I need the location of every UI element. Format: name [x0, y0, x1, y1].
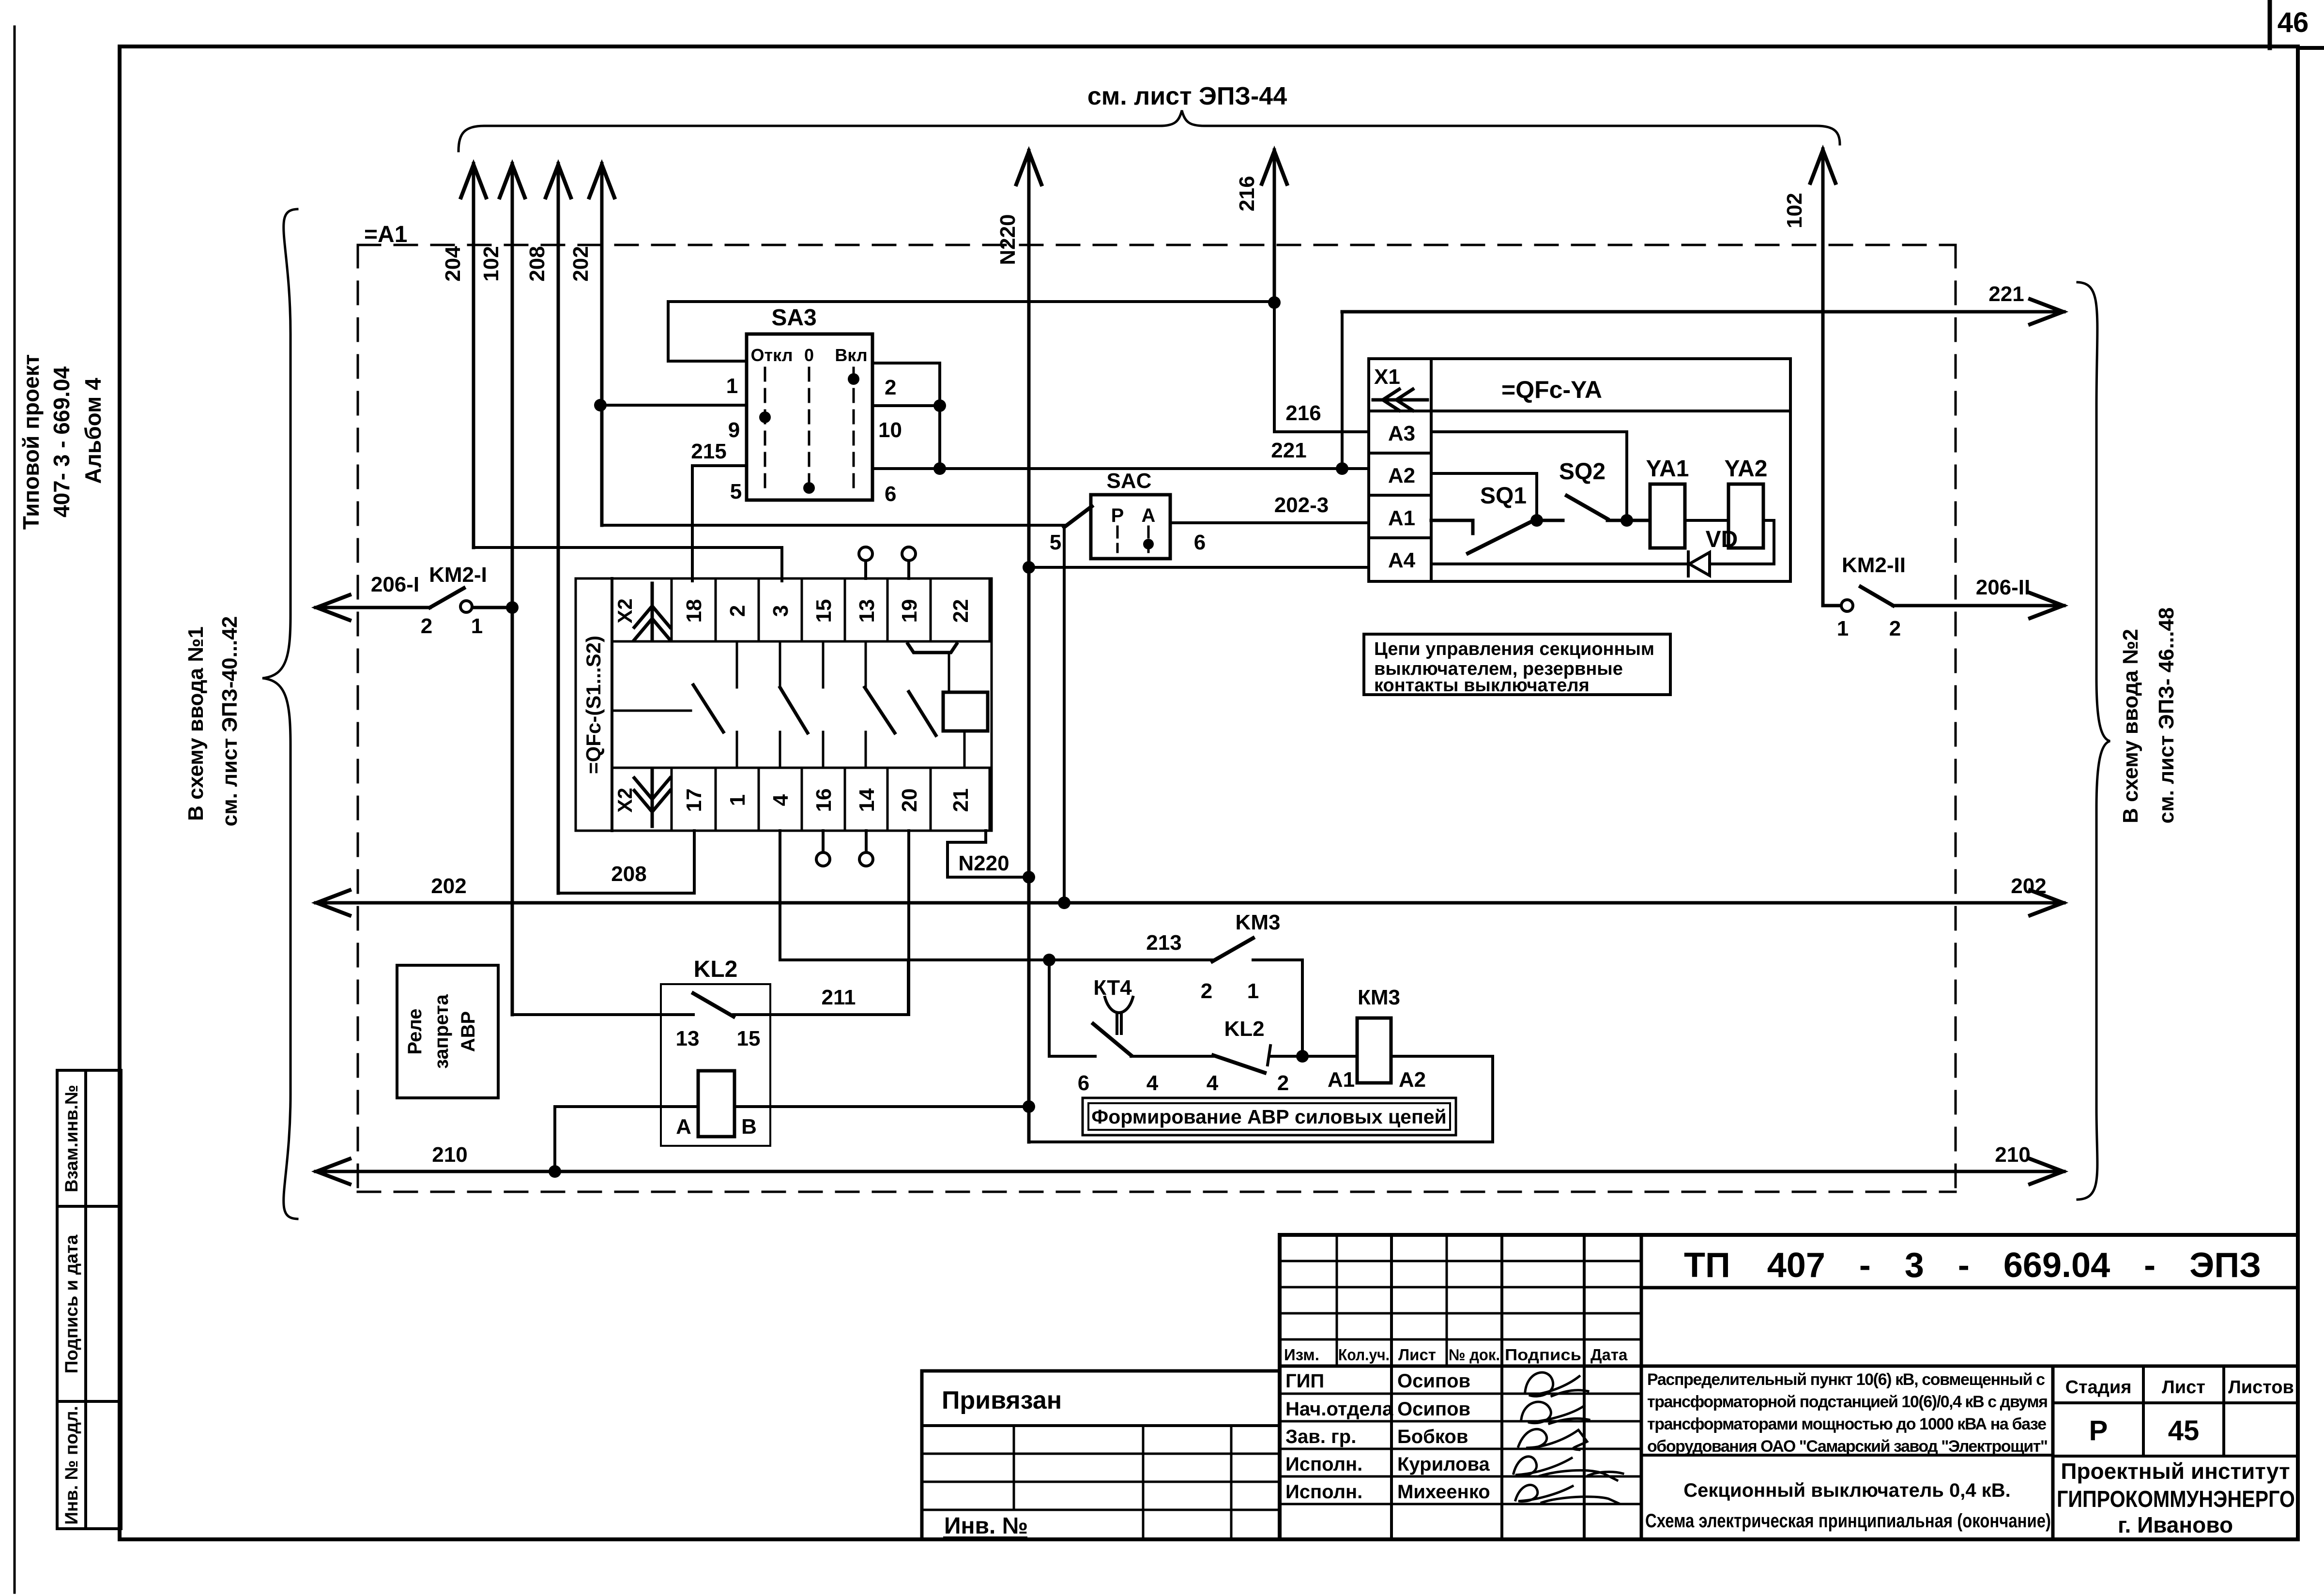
svg-text:2: 2 — [1201, 979, 1212, 1003]
wire SAC5 drop to 202 — [1063, 526, 1066, 903]
wire SA3 pin6 to X1-A2 (221 run) — [872, 467, 1369, 470]
QFc terminal 13 circle — [859, 547, 872, 561]
svg-text:202: 202 — [569, 246, 593, 281]
svg-text:4: 4 — [1147, 1071, 1159, 1095]
svg-text:21: 21 — [949, 789, 973, 812]
svg-text:Михеенко: Михеенко — [1397, 1481, 1490, 1503]
svg-text:22: 22 — [949, 599, 973, 623]
wire SA3 pin1 to 216 node — [668, 302, 1274, 361]
svg-text:Цепи управления секционным: Цепи управления секционным — [1374, 639, 1654, 659]
wire 202 down-corner to SAC — [602, 524, 1065, 527]
svg-text:0: 0 — [804, 345, 814, 365]
switch SAC box — [1091, 495, 1170, 559]
svg-text:Нач.отдела: Нач.отдела — [1285, 1398, 1393, 1420]
svg-text:N220: N220 — [958, 851, 1009, 875]
svg-text:102: 102 — [479, 246, 503, 281]
node KL2-B on N220 — [1023, 1100, 1035, 1113]
coil KM3 — [1357, 1018, 1391, 1083]
project description cell — [1647, 1370, 2048, 1456]
svg-text:трансформаторной подстанцией 1: трансформаторной подстанцией 10(6)/0,4 к… — [1647, 1393, 2048, 1411]
svg-text:216: 216 — [1285, 401, 1321, 425]
left big brace — [262, 209, 297, 1219]
role names — [1285, 1370, 1490, 1503]
svg-text:SAC: SAC — [1107, 469, 1152, 493]
svg-text:6: 6 — [1194, 531, 1206, 554]
svg-text:АВР: АВР — [458, 1011, 479, 1052]
wire to KM3 coil — [1270, 1055, 1357, 1058]
svg-text:Лист: Лист — [2162, 1377, 2205, 1398]
svg-text:Дата: Дата — [1590, 1346, 1628, 1364]
svg-text:2: 2 — [885, 376, 896, 399]
node SA3 pin9 tap — [594, 399, 607, 411]
top brace см. лист ЭПЗ-44 — [459, 110, 1840, 151]
QFc trip coil — [943, 692, 988, 731]
X1 interior A1 wire to SQ1 — [1431, 519, 1537, 553]
wire QFc-20 drop — [907, 831, 910, 1015]
svg-text:Проектный институт: Проектный институт — [2061, 1459, 2290, 1484]
node SA3 right jog 10 — [933, 399, 946, 412]
contact KT4 timer — [1093, 997, 1133, 1055]
svg-text:2: 2 — [1277, 1071, 1289, 1095]
svg-text:ГИПРОКОММУНЭНЕРГО: ГИПРОКОММУНЭНЕРГО — [2057, 1487, 2295, 1512]
SA3 dashed position lines — [765, 368, 854, 491]
node 216 junction — [1268, 296, 1281, 309]
coil YA1 — [1650, 484, 1685, 548]
wire 208 vertical with up arrow — [546, 164, 571, 893]
wire X1-A4 run to N220 — [1029, 566, 1369, 569]
svg-text:13: 13 — [855, 599, 879, 623]
svg-text:Откл: Откл — [751, 345, 793, 365]
contact KM2-II — [1823, 587, 2064, 618]
svg-text:контакты выключателя: контакты выключателя — [1374, 675, 1590, 696]
svg-text:5: 5 — [1050, 531, 1061, 554]
node SA3 right jog 6 — [933, 462, 946, 475]
terminal block X1 =QFc-YA box — [1369, 359, 1790, 581]
svg-text:Секционный выключатель 0,4 кВ.: Секционный выключатель 0,4 кВ. — [1683, 1480, 2010, 1501]
svg-text:Лист: Лист — [1398, 1346, 1436, 1364]
wire 204 corner to QFc terminal 3 — [474, 547, 782, 581]
page thin left border — [14, 27, 16, 1593]
svg-text:Подпись и дата: Подпись и дата — [61, 1234, 81, 1373]
svg-text:Р: Р — [2089, 1415, 2108, 1446]
node N220 jog — [1023, 871, 1035, 883]
SAC dashed lines — [1117, 527, 1148, 552]
svg-text:15: 15 — [737, 1027, 761, 1050]
wire YA1 to YA2 — [1685, 519, 1728, 522]
left side stamp column — [57, 1070, 121, 1529]
svg-text:407- 3 - 669.04: 407- 3 - 669.04 — [49, 366, 74, 517]
coil YA2 — [1728, 484, 1763, 548]
svg-text:45: 45 — [2168, 1415, 2200, 1446]
node A4 on N220 — [1023, 561, 1035, 574]
svg-text:A3: A3 — [1388, 422, 1415, 445]
svg-text:Альбом 4: Альбом 4 — [80, 378, 106, 484]
node 213 branch — [1043, 954, 1055, 966]
X1 interior A3 wire — [1431, 432, 1627, 520]
svg-text:Привязан: Привязан — [942, 1386, 1062, 1414]
node KM3-1 drop — [1296, 1050, 1309, 1063]
svg-text:P: P — [1111, 505, 1124, 526]
svg-text:Зав. гр.: Зав. гр. — [1285, 1426, 1356, 1447]
svg-text:206-II: 206-II — [1976, 576, 2031, 599]
wire QFc-4 drop — [779, 831, 781, 960]
svg-text:В схему ввода №2: В схему ввода №2 — [2119, 629, 2142, 823]
QFc label column divider — [611, 578, 613, 831]
wire X1-A4 return with diode — [1431, 562, 1688, 565]
title block outer — [1280, 1235, 2298, 1539]
svg-text:SA3: SA3 — [771, 305, 816, 331]
svg-text:1: 1 — [726, 794, 749, 806]
svg-text:2: 2 — [421, 614, 432, 638]
svg-text:202: 202 — [2011, 874, 2046, 898]
svg-text:Формирование АВР силовых цепей: Формирование АВР силовых цепей — [1091, 1106, 1447, 1128]
right big brace — [2078, 282, 2110, 1200]
svg-text:оборудования ОАО "Самарский за: оборудования ОАО "Самарский завод "Элект… — [1647, 1437, 2048, 1456]
note box Цепи управления — [1364, 634, 1670, 695]
QFc jumper hat 19-22 — [908, 644, 957, 653]
svg-text:Реле: Реле — [404, 1008, 426, 1054]
wire 221 horizontal to right arrow — [1342, 299, 2064, 324]
wire 204 vertical with up arrow — [461, 164, 486, 547]
svg-text:КТ4: КТ4 — [1093, 976, 1132, 1000]
svg-text:VD: VD — [1706, 527, 1738, 552]
svg-text:YA1: YA1 — [1646, 456, 1689, 482]
svg-text:213: 213 — [1146, 931, 1181, 955]
node on 210 — [549, 1165, 561, 1178]
svg-text:Взам.инв.№: Взам.инв.№ — [61, 1085, 81, 1192]
privyazan block — [922, 1371, 1280, 1539]
wire 206-I with left arrow — [316, 595, 430, 620]
svg-text:221: 221 — [1988, 282, 2024, 306]
svg-text:17: 17 — [682, 789, 706, 812]
contact KL2 (in AVR row) — [1213, 1055, 1265, 1073]
svg-text:SQ2: SQ2 — [1559, 459, 1605, 485]
wire SAC-6 to X1-A1 (202-3) — [1170, 521, 1369, 524]
svg-text:4: 4 — [1207, 1071, 1219, 1095]
sheet number box 46 — [2268, 0, 2272, 48]
wire QFc-21 N220 jog — [948, 831, 1029, 877]
svg-text:208: 208 — [525, 246, 549, 281]
svg-text:202-3: 202-3 — [1274, 493, 1329, 517]
breaker block =QFc-(S1...S2) — [576, 578, 992, 831]
QFc terminal 19 circle — [902, 547, 916, 561]
svg-text:Исполн.: Исполн. — [1285, 1454, 1362, 1475]
svg-text:X2: X2 — [613, 598, 636, 623]
node drop on 202 — [1058, 897, 1070, 909]
svg-text:Листов: Листов — [2228, 1377, 2294, 1398]
svg-text:=A1: =A1 — [364, 222, 407, 247]
svg-text:см. лист ЭПЗ-44: см. лист ЭПЗ-44 — [1087, 82, 1287, 110]
title block revision grid — [1280, 1235, 2298, 1539]
svg-text:202: 202 — [431, 874, 466, 898]
wire 221 riser — [1341, 312, 1344, 469]
svg-text:1: 1 — [1837, 617, 1849, 640]
svg-text:KM2-II: KM2-II — [1842, 553, 1906, 577]
svg-text:X2: X2 — [613, 788, 636, 812]
wire 211 riser and 213 run — [907, 960, 910, 1015]
X1 header band — [1369, 410, 1790, 412]
svg-text:5: 5 — [730, 480, 742, 503]
svg-text:Инв. № подл.: Инв. № подл. — [61, 1406, 81, 1525]
svg-text:запрета: запрета — [431, 994, 452, 1069]
svg-text:6: 6 — [885, 482, 896, 506]
svg-text:Осипов: Осипов — [1397, 1370, 1470, 1392]
X1 interior A2 wire — [1431, 473, 1537, 520]
title row lines — [1280, 1394, 1641, 1504]
SA3 pin wires left — [668, 360, 747, 363]
node SQ2 junction — [1621, 514, 1633, 527]
header labels — [1284, 1346, 1628, 1364]
node KM2-I pin1 junction — [506, 601, 519, 614]
svg-text:Кол.уч.: Кол.уч. — [1338, 1346, 1390, 1364]
contact KM3 — [1212, 938, 1253, 961]
wire 102 vertical with up arrow — [500, 164, 525, 1015]
contact KM2-I — [430, 588, 512, 612]
wire 202 horizontal across with arrows both ends — [316, 890, 2064, 915]
svg-text:A1: A1 — [1388, 506, 1415, 530]
wire 102 right vertical with up arrow — [1810, 149, 1835, 606]
node SQ1 junction — [1530, 514, 1543, 527]
sheet title cell — [1641, 1454, 2053, 1457]
svg-text:3: 3 — [769, 605, 793, 617]
note box Формирование АВР — [1083, 1098, 1456, 1135]
svg-text:Вкл: Вкл — [835, 345, 867, 365]
svg-text:1: 1 — [471, 614, 483, 638]
svg-text:46: 46 — [2278, 7, 2309, 38]
svg-text:Распределительный пункт 10(6): Распределительный пункт 10(6) кВ, совмещ… — [1647, 1370, 2045, 1389]
svg-text:208: 208 — [611, 862, 646, 886]
svg-text:16: 16 — [812, 789, 836, 812]
svg-text:Бобков: Бобков — [1397, 1426, 1468, 1447]
svg-text:206-I: 206-I — [371, 573, 419, 596]
wire 208 jog to QFc terminal 17 — [558, 831, 694, 893]
svg-text:215: 215 — [691, 440, 726, 463]
svg-text:N220: N220 — [996, 214, 1020, 265]
svg-text:ГИП: ГИП — [1285, 1370, 1324, 1392]
enclosure wire N220 bottom loop — [1029, 1056, 1493, 1142]
svg-text:2: 2 — [1889, 617, 1901, 640]
note box Реле запрета АВР — [397, 965, 498, 1098]
SA3 pin wires right with jog — [872, 363, 940, 469]
svg-text:г. Иваново: г. Иваново — [2118, 1512, 2233, 1537]
wire 216 node down to X1-A3 — [1274, 304, 1369, 432]
svg-text:4: 4 — [769, 794, 793, 806]
stage table — [2053, 1366, 2298, 1539]
QFc terminal 16 circle — [816, 852, 830, 866]
QFc top terminal row — [612, 578, 990, 641]
X1 cells column — [1430, 359, 1433, 581]
wire 213 branch down to AVR row — [1049, 960, 1095, 1056]
wire 202 vertical with up arrow — [589, 164, 614, 525]
svg-text:15: 15 — [812, 599, 836, 623]
svg-text:1: 1 — [726, 374, 738, 398]
svg-text:A2: A2 — [1399, 1068, 1426, 1092]
svg-text:Исполн.: Исполн. — [1285, 1481, 1362, 1503]
doc number cell — [1641, 1286, 2298, 1290]
svg-text:6: 6 — [1078, 1071, 1089, 1095]
svg-text:Инв. №: Инв. № — [944, 1513, 1028, 1539]
switch SA3 box — [747, 334, 872, 500]
svg-text:Подпись: Подпись — [1505, 1346, 1581, 1364]
svg-text:KL2: KL2 — [1224, 1017, 1264, 1041]
wire KL2 coil B to N220 — [734, 1105, 1029, 1108]
svg-text:211: 211 — [822, 986, 856, 1009]
wire 216 vertical with up arrow — [1262, 150, 1287, 304]
X1 plug symbol — [1373, 389, 1427, 410]
wire AVR row segment — [1131, 1055, 1213, 1058]
wire 102 corner to KL2-13 — [512, 1013, 693, 1016]
QFc interior contacts — [612, 641, 936, 768]
svg-text:A4: A4 — [1388, 548, 1416, 572]
svg-text:210: 210 — [1995, 1143, 2030, 1167]
svg-text:210: 210 — [432, 1143, 467, 1167]
dashed enclosure =A1 — [358, 245, 1956, 1192]
wire KL2 coil A to 210 — [555, 1107, 698, 1171]
svg-text:X1: X1 — [1374, 365, 1400, 389]
svg-text:КМ3: КМ3 — [1358, 986, 1400, 1009]
svg-text:216: 216 — [1235, 176, 1259, 211]
svg-text:B: B — [741, 1115, 757, 1139]
svg-text:см. лист ЭПЗ-40...42: см. лист ЭПЗ-40...42 — [218, 616, 242, 826]
svg-text:102: 102 — [1783, 193, 1806, 228]
signatures — [1514, 1372, 1623, 1504]
svg-text:Стадия: Стадия — [2065, 1377, 2132, 1398]
svg-text:1: 1 — [1247, 979, 1259, 1003]
svg-text:KL2: KL2 — [694, 957, 738, 982]
svg-text:KM3: KM3 — [1236, 911, 1281, 934]
contact SQ2 — [1537, 496, 1650, 520]
svg-text:Изм.: Изм. — [1284, 1346, 1319, 1364]
svg-text:=QFc-(S1...S2): =QFc-(S1...S2) — [582, 636, 605, 774]
wire KM3-A2 to enclosure — [1391, 1055, 1493, 1058]
svg-text:18: 18 — [682, 599, 706, 623]
svg-text:14: 14 — [855, 788, 879, 812]
svg-text:=QFc-YA: =QFc-YA — [1501, 376, 1602, 403]
contact KL2 13-15 — [693, 993, 734, 1017]
node 221 riser junction — [1336, 462, 1348, 475]
svg-text:YA2: YA2 — [1725, 456, 1768, 482]
svg-text:A1: A1 — [1328, 1068, 1355, 1092]
svg-text:20: 20 — [898, 789, 921, 812]
diode VD — [1688, 552, 1710, 576]
QFc terminal 14 circle — [859, 852, 873, 866]
svg-text:Курилова: Курилова — [1397, 1454, 1490, 1475]
svg-text:2: 2 — [726, 605, 749, 617]
svg-text:A: A — [1142, 505, 1156, 526]
SA3 contact dots — [759, 411, 771, 423]
svg-text:Типовой проект: Типовой проект — [18, 354, 44, 530]
wire diode to YA2 right riser — [1710, 520, 1774, 564]
wire N220 vertical with up arrow — [1016, 151, 1041, 1142]
wire 210 horizontal with arrows both ends — [316, 1159, 2064, 1184]
svg-text:см. лист ЭПЗ- 46...48: см. лист ЭПЗ- 46...48 — [2155, 608, 2178, 824]
svg-text:A: A — [676, 1115, 691, 1139]
svg-text:В схему ввода №1: В схему ввода №1 — [184, 626, 208, 821]
QFc bottom terminal row — [612, 768, 990, 831]
svg-text:13: 13 — [676, 1027, 700, 1050]
SAC dot on A — [1143, 539, 1154, 549]
svg-text:№ док.: № док. — [1449, 1346, 1500, 1364]
svg-text:трансформаторами мощностью до: трансформаторами мощностью до 1000 кВА н… — [1647, 1415, 2047, 1433]
svg-text:A2: A2 — [1388, 464, 1415, 487]
svg-text:Схема электрическая принципиал: Схема электрическая принципиальная (окон… — [1645, 1510, 2051, 1532]
coil KL2 — [698, 1071, 734, 1137]
svg-text:SQ1: SQ1 — [1480, 483, 1527, 509]
svg-text:19: 19 — [898, 599, 921, 623]
SAC pin5 blade — [1064, 506, 1092, 527]
svg-text:KM2-I: KM2-I — [429, 563, 487, 587]
svg-text:10: 10 — [878, 418, 902, 442]
relay KL2 box — [661, 984, 770, 1146]
svg-text:Осипов: Осипов — [1397, 1398, 1470, 1420]
svg-text:9: 9 — [728, 418, 740, 442]
svg-text:204: 204 — [441, 246, 465, 282]
svg-text:ТП407-3-669.04-ЭПЗ: ТП407-3-669.04-ЭПЗ — [1684, 1246, 2261, 1285]
svg-text:221: 221 — [1271, 439, 1306, 462]
